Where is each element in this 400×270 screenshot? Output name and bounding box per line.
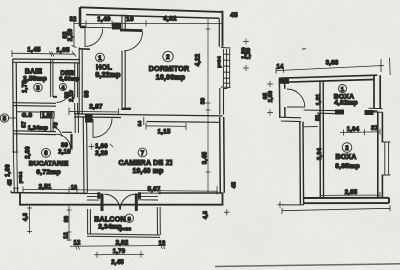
balcony window right segment xyxy=(138,193,158,200)
partition HOL-DORMITOR upper xyxy=(122,15,125,29)
vertical dim 80/12 left of balcony xyxy=(67,206,72,241)
wall HOL-CAMERA horizontal xyxy=(74,114,223,122)
G.S room callout circle 5 xyxy=(0,114,8,122)
leader line room 5 xyxy=(9,117,16,119)
dim line 1,04/37 xyxy=(340,129,380,136)
boxa2 right window xyxy=(382,142,391,175)
right jut xyxy=(369,108,383,112)
boxa1 bottom wall jamb blocks xyxy=(335,110,344,115)
BUCATARIE-CAMERA wall xyxy=(83,118,87,193)
outer wall top outer line xyxy=(80,7,223,46)
balcony window left segment xyxy=(87,193,99,200)
right wall dormitor upper xyxy=(219,12,222,47)
corridor left wall xyxy=(300,122,304,205)
bottom left tick xyxy=(278,202,284,208)
page edge line bottom right xyxy=(215,264,400,267)
dim line 2,65 xyxy=(321,192,381,198)
dim line 1,70 xyxy=(94,251,144,257)
corridor step line xyxy=(304,126,318,128)
vestibule door arc xyxy=(287,89,305,107)
dim line top (32/1,49/16/4,02/45) xyxy=(74,10,222,27)
room circle 7 CAMERA xyxy=(138,148,147,157)
room circle 1 HOL xyxy=(96,53,105,62)
entrance door arc xyxy=(85,29,103,47)
G.S fixture box 1,20 xyxy=(41,112,55,119)
left stub bottom xyxy=(10,191,12,194)
BUCATARIE door leaf xyxy=(70,134,72,150)
bottom wall outer xyxy=(20,193,223,205)
bottom dim line right plan xyxy=(282,205,390,213)
top wall boxa1 xyxy=(279,75,377,82)
HOL left wall top corner xyxy=(79,48,90,50)
CAMERA right wall xyxy=(220,117,225,193)
vertical dim 4,5 bottom left xyxy=(27,206,32,234)
RIGHT-PLAN xyxy=(263,49,391,214)
entrance left jamb xyxy=(80,7,86,27)
room circle 2 boxa2 xyxy=(342,143,352,153)
BUCATARIE left wall window xyxy=(12,152,19,188)
room circle 6 xyxy=(42,148,51,157)
left wall below door xyxy=(280,89,286,118)
CAMERA door jamb block xyxy=(85,115,93,123)
room circle 3 BAIE xyxy=(34,83,42,91)
tick cross bottom right xyxy=(224,209,230,215)
balcony right wall xyxy=(157,207,160,235)
entrance threshold xyxy=(86,26,112,29)
room circle 1 boxa1 xyxy=(339,85,347,93)
dim line 12/2,92/12 xyxy=(70,243,165,250)
LEFT-PLAN xyxy=(0,7,252,266)
small dash mark above plan xyxy=(302,48,306,50)
BAIE left wall upper xyxy=(13,59,17,152)
CAMERA door arc xyxy=(93,118,112,137)
DORMITOR door lintel bar xyxy=(120,29,143,32)
dim line 2,51/13/5,67 xyxy=(23,186,218,195)
corridor wall piece below DEB xyxy=(75,103,78,114)
room circle 4 DEB xyxy=(59,83,66,90)
BAIE top wall xyxy=(13,59,81,63)
french door left leaf xyxy=(101,194,104,212)
corridor wall right of G.S xyxy=(75,113,78,134)
vertical dim line right 4,22/30/3,45 xyxy=(206,19,211,192)
room circle 2 DORMITOR xyxy=(163,51,173,61)
dormitor window right xyxy=(221,48,231,88)
right wall below window xyxy=(220,88,228,115)
french door right arc xyxy=(120,194,136,210)
G.S door arc xyxy=(53,128,62,137)
balcony left wall xyxy=(88,209,91,234)
BAIE bottom wall xyxy=(13,103,56,107)
DORMITOR door arc xyxy=(124,32,143,51)
french door right jamb block xyxy=(138,192,141,199)
boxa2 right wall xyxy=(378,112,383,197)
dim line 1,45/1,05 xyxy=(12,51,76,58)
partition BAIE-DEB xyxy=(51,59,53,97)
room circle 8 xyxy=(125,214,133,222)
partition foot bar xyxy=(121,108,131,110)
BUCATARIE left wall lower xyxy=(14,188,17,193)
DEB bottom door opening arc xyxy=(57,90,71,103)
left wall upper xyxy=(279,78,285,89)
BUCATARIE door arc xyxy=(56,134,71,148)
vertical dim line 93/2,20 at entrance xyxy=(72,27,77,48)
bottom wall inner left segment xyxy=(11,192,87,195)
balcony bottom wall xyxy=(87,234,160,238)
boxa1 bottom wall right part xyxy=(365,110,378,112)
dim line 2,87 xyxy=(69,108,119,116)
bottom wall inner right segment xyxy=(158,192,223,194)
entrance right jamb block xyxy=(112,23,121,30)
boxa1 right wall xyxy=(374,75,380,108)
boxa1 bottom wall left part xyxy=(304,110,344,114)
step wall to corridor xyxy=(280,117,301,121)
outer wall top inner line xyxy=(86,15,219,19)
boxa2 bottom wall xyxy=(304,198,389,203)
DEB door jamb xyxy=(53,96,57,98)
bottom left corner line xyxy=(282,204,304,206)
G.S right wall xyxy=(51,112,53,131)
BUCATARIE top wall xyxy=(14,131,72,135)
DEB right wall xyxy=(75,63,78,98)
top dim line 14/3,68 xyxy=(276,58,390,76)
internal wall vertical xyxy=(320,82,324,198)
HOL left wall xyxy=(79,48,82,114)
french door left jamb block xyxy=(97,192,100,199)
dim line 1,15 dormitor xyxy=(144,117,186,130)
french door right leaf xyxy=(135,194,138,212)
G.S top wall xyxy=(16,111,54,113)
french door left arc xyxy=(105,194,120,210)
vestibule corner block xyxy=(279,78,289,84)
partition HOL-DORMITOR lower xyxy=(122,51,125,108)
